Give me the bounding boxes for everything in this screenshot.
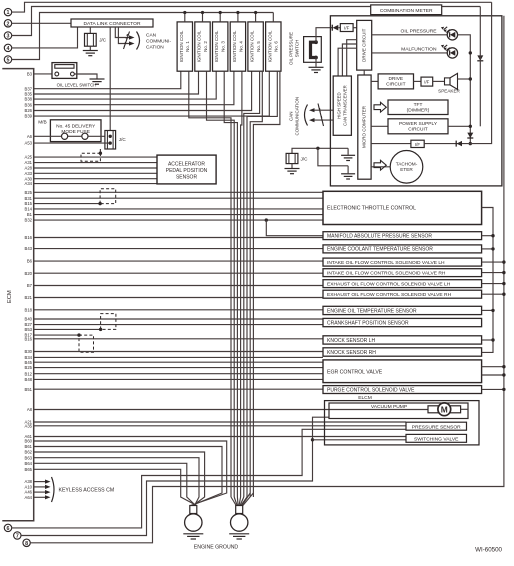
connector circle 3 [4, 32, 11, 39]
wire ECM B17 shield drain [34, 334, 79, 336]
svg-text:B25: B25 [25, 365, 33, 370]
micro computer box [358, 75, 371, 179]
shield (crankshaft sensor wires) [101, 314, 116, 330]
svg-text:SENSOR: SENSOR [176, 174, 198, 180]
arrowhead CAN low (meter) [309, 118, 315, 122]
connector circle 4 [4, 44, 11, 51]
wire oil pressure lamp [372, 34, 448, 36]
wire J/C to ground [89, 46, 91, 50]
arrowhead CAN high (meter) [309, 108, 315, 112]
svg-text:B61: B61 [25, 444, 33, 449]
svg-text:MALFUNCTION: MALFUNCTION [401, 47, 437, 53]
CAN bus arc (meter) [305, 105, 308, 126]
svg-text:6: 6 [7, 526, 10, 532]
wire ECM B12 [34, 373, 323, 375]
arrowhead A46 [45, 490, 51, 494]
svg-text:OIL LEVEL SWITCH: OIL LEVEL SWITCH [57, 82, 97, 87]
wire ECM A64 to keyless access CM [34, 496, 46, 498]
ignition coil No.4 [230, 22, 245, 71]
svg-text:(DIMMER): (DIMMER) [407, 108, 430, 114]
engine ground 1 body [185, 514, 202, 531]
wire ECM B40 [34, 318, 323, 320]
oil pressure switch box [304, 37, 322, 63]
junction dot switching valve branch [311, 438, 314, 441]
intake oil flow control solenoid valve LH box [323, 258, 482, 266]
svg-text:7: 7 [16, 534, 19, 540]
svg-text:I/F: I/F [424, 80, 429, 85]
svg-text:B43: B43 [25, 246, 33, 251]
wire I/F to drive circuit [353, 27, 357, 29]
svg-text:B45: B45 [25, 360, 33, 365]
wire ECM A33 to accelerator sensor [34, 172, 157, 174]
wire ECM A38 to keyless access CM [34, 481, 46, 483]
svg-text:A38: A38 [25, 479, 33, 484]
wire transceiver to drive circuit 2 [342, 44, 356, 76]
wire circle 6 to pressure sensor [12, 429, 406, 528]
arrowhead A10 [45, 485, 51, 489]
wire coil bundle 1 into engine ground 2 [231, 497, 236, 506]
ignition coil No.1 [177, 22, 192, 71]
junction dot sensor rail coolant sensor [491, 247, 494, 250]
svg-text:A53: A53 [25, 141, 33, 146]
junction dot coil No.5 supply [254, 11, 257, 14]
svg-text:B53: B53 [25, 327, 33, 332]
junction dot J/C A53 [109, 141, 112, 144]
ground (engine ground 2) [229, 533, 249, 535]
svg-text:SPEAKER: SPEAKER [438, 89, 460, 94]
wire coil 6 shield ground [253, 71, 280, 497]
wire ECM A34 to accelerator sensor [34, 183, 157, 185]
svg-text:No. 5: No. 5 [256, 41, 261, 52]
wire drive circuit to micro computer [363, 70, 365, 75]
wire transceiver to drive circuit 1 [347, 40, 357, 76]
svg-text:EXHAUST OIL FLOW CONTROL SOLEN: EXHAUST OIL FLOW CONTROL SOLENOID VALVE … [327, 281, 451, 287]
sensor rail [482, 208, 493, 353]
svg-text:ETER: ETER [400, 167, 413, 172]
svg-text:No. 3: No. 3 [221, 41, 226, 52]
No. 45 delivery mode fuse box [50, 120, 101, 142]
wire oil pressure switch to meter [316, 28, 332, 43]
svg-text:A33: A33 [25, 171, 33, 176]
stub exhaust LH to valve rail [482, 283, 504, 285]
junction dot valve rail EGR 2 [502, 373, 505, 376]
wire ECM B18 [34, 309, 323, 311]
wire ECM B64 to engine ground 1 [34, 463, 196, 505]
ECM label [7, 290, 13, 303]
ignition coil No.2 [195, 22, 210, 71]
svg-text:PURGE CONTROL SOLENOID VALVE: PURGE CONTROL SOLENOID VALVE [327, 387, 415, 393]
wire coil bundle 7 into engine ground 2 [242, 493, 250, 506]
wire circle 7 to vacuum pump [21, 417, 329, 535]
wire ECM B35 to ignition coil No.2 [34, 71, 199, 94]
ignition coil No.3 supply stub [219, 13, 221, 22]
tachometer [390, 151, 423, 184]
shield (accelerator sensor wire) [81, 153, 100, 161]
wire ECM B14 to electronic throttle control [34, 208, 323, 210]
svg-text:TACHOM-: TACHOM- [396, 161, 418, 166]
svg-text:OIL PRESSURE: OIL PRESSURE [401, 29, 438, 35]
vacuum pump motor terminal left [428, 406, 438, 413]
wire ECM B53 shield drain [34, 328, 101, 330]
wire I/F to speaker [433, 80, 445, 82]
svg-text:3: 3 [7, 34, 10, 40]
wire coil 2 ground [207, 71, 235, 497]
oil level switch box [52, 63, 77, 79]
switching valve box [406, 434, 467, 442]
valve rail stub purge [482, 388, 504, 390]
svg-text:I/F: I/F [415, 142, 420, 147]
svg-text:A6: A6 [27, 134, 33, 139]
svg-text:ELECTRONIC THROTTLE CONTROL: ELECTRONIC THROTTLE CONTROL [327, 206, 416, 212]
drive circuit box (lamps) [357, 20, 372, 70]
junction dot LED2 rail [469, 51, 472, 54]
wire ECM B27 [34, 324, 323, 326]
combination meter box [330, 16, 502, 186]
wire ECM B62 to engine ground 1 [34, 452, 205, 506]
CAN communication label (meter) [288, 97, 299, 136]
svg-text:SWITCH: SWITCH [295, 40, 300, 58]
svg-text:B30: B30 [25, 349, 33, 354]
wire malfunction lamp [372, 52, 448, 54]
wire coil 4 ground [241, 71, 242, 497]
svg-text:IGNITION COIL: IGNITION COIL [214, 30, 219, 62]
junction dot valve rail exhaust RH [502, 293, 505, 296]
wire ECM B61 to engine ground 1 [34, 447, 222, 506]
svg-text:M: M [441, 404, 448, 414]
wire ECM B63 to engine ground 1 [34, 458, 199, 506]
wire ECM B7 [34, 285, 323, 287]
svg-text:4: 4 [7, 46, 10, 52]
svg-text:COMMUNICATION: COMMUNICATION [294, 97, 299, 136]
svg-text:EGR CONTROL VALVE: EGR CONTROL VALVE [327, 369, 383, 375]
wire micro computer to I/F 3 [371, 143, 411, 145]
wire ECM B32 to electronic throttle control [34, 219, 323, 221]
interface I/F box 2 [421, 77, 433, 86]
speaker symbol [445, 78, 451, 85]
LED malfunction [447, 48, 457, 58]
svg-text:POWER SUPPLY: POWER SUPPLY [399, 121, 438, 127]
svg-text:PRESSURE SENSOR: PRESSURE SENSOR [412, 424, 461, 430]
svg-text:ENGINE GROUND: ENGINE GROUND [194, 545, 239, 551]
wire from circle 4 to data link connector [12, 27, 78, 48]
svg-text:IGNITION COIL: IGNITION COIL [179, 30, 184, 62]
interface I/F box 3 [411, 140, 424, 147]
svg-text:IGNITION COIL: IGNITION COIL [267, 30, 272, 62]
connector circle 8 [23, 539, 30, 546]
drive circuit box (speaker) [378, 74, 413, 89]
wire ECM A31 to accelerator sensor [34, 162, 157, 164]
svg-text:B12: B12 [25, 371, 33, 376]
interface I/F box 1 [340, 24, 353, 32]
arrowhead A38 [45, 480, 51, 484]
svg-text:B38: B38 [25, 97, 33, 102]
micro computer label [362, 105, 367, 148]
diode (meter input) [331, 25, 333, 31]
svg-text:B60: B60 [25, 439, 33, 444]
wire from circle 3 to meter rail [12, 7, 481, 36]
wire ECM B65 to engine ground 1 [34, 469, 197, 505]
wire coil bundle 8 into engine ground 2 [243, 493, 254, 506]
ignition coil No.5 supply stub [255, 13, 257, 22]
junction dot shield drain B15 [98, 202, 101, 205]
fuse terminal right [82, 133, 88, 139]
knock sensor RH box [323, 348, 482, 356]
arrowhead A64 [45, 495, 51, 499]
CAN bus arc (data link) [137, 32, 140, 50]
svg-text:B26: B26 [25, 108, 33, 113]
junction dot shield drain B53 [99, 328, 102, 331]
shield (knock sensor wires) [79, 335, 94, 352]
junction dot rail bottom [469, 142, 472, 145]
exhaust oil flow control solenoid valve LH box [323, 280, 482, 288]
vacuum pump motor [438, 403, 451, 416]
svg-text:KEYLESS ACCESS CM: KEYLESS ACCESS CM [59, 487, 115, 493]
CAN twisted-pair slash (meter) [318, 104, 324, 127]
svg-text:PEDAL POSITION: PEDAL POSITION [166, 168, 208, 174]
TFT arrow [374, 102, 386, 112]
wire from circle 2 to data link connector [12, 22, 71, 24]
junction dot coil No.3 supply [219, 11, 222, 14]
crankshaft position sensor box [323, 318, 482, 326]
ignition coil No.6 supply stub [272, 13, 274, 22]
svg-text:IGNITION COIL: IGNITION COIL [196, 30, 201, 62]
drive circuit label (lamps) [361, 28, 366, 62]
stub EGR 2 to valve rail [482, 374, 504, 376]
svg-text:B18: B18 [25, 307, 33, 312]
wire ECM B21 [34, 297, 323, 299]
wire micro computer to drive circuit 2 [371, 80, 378, 82]
svg-text:B6: B6 [27, 259, 33, 264]
junction dot valve rail intake RH [502, 271, 505, 274]
svg-text:B20: B20 [25, 271, 33, 276]
junction dot valve rail EGR 1 [502, 365, 505, 368]
diode (meter feed rail) [477, 55, 483, 60]
svg-text:2: 2 [7, 21, 10, 27]
svg-text:INTAKE OIL FLOW CONTROL SOLENO: INTAKE OIL FLOW CONTROL SOLENOID VALVE L… [327, 260, 445, 266]
combination meter label box [371, 5, 442, 15]
svg-text:ENGINE COOLANT TEMPERATURE SEN: ENGINE COOLANT TEMPERATURE SENSOR [327, 247, 433, 253]
wire ECM A8 [34, 409, 428, 411]
svg-text:A25: A25 [25, 155, 33, 160]
wire drive circuit to I/F 2 [414, 80, 422, 82]
connector circle 2 [4, 20, 11, 27]
svg-text:B25: B25 [25, 190, 33, 195]
ignition coil No.6 [266, 22, 281, 71]
wire ECM A21 [34, 421, 406, 423]
engine coolant temperature sensor box [323, 245, 482, 253]
svg-text:MICRO COMPUTER: MICRO COMPUTER [362, 105, 367, 148]
wire ECM B15 shield drain [34, 203, 100, 205]
power supply circuit box [388, 119, 448, 134]
wire ECM B37 to ignition coil No.1 [34, 71, 181, 89]
CAN twisted-pair slash (data link) [124, 32, 130, 50]
ignition coil No.2 supply stub [202, 13, 204, 22]
svg-text:B64: B64 [25, 461, 33, 466]
wire ECM B1 to electronic throttle control [34, 214, 323, 216]
wire vacuum pump motor stub [461, 408, 468, 410]
svg-text:J/C: J/C [99, 37, 107, 42]
wire ECM A46 to keyless access CM [34, 491, 46, 493]
svg-text:No. 6: No. 6 [274, 41, 279, 52]
junction connector J/C (data link) [85, 33, 97, 46]
svg-text:J/C: J/C [301, 157, 309, 162]
svg-text:B65: B65 [25, 467, 33, 472]
arrowhead CAN low [129, 41, 135, 45]
wire transceiver to drive circuit 3 [338, 48, 357, 76]
stub exhaust RH to valve rail [482, 293, 504, 295]
ELCM box [325, 401, 480, 445]
junction dot sensor rail knock LH [491, 338, 494, 341]
high speed CAN transceiver label [336, 85, 347, 126]
junction dot shield drain A25 [99, 152, 102, 155]
EGR control valve box [323, 360, 482, 383]
svg-text:IGNITION COIL: IGNITION COIL [250, 30, 255, 62]
wire ECM B31 to electronic throttle control [34, 197, 323, 199]
oil level switch terminal right [71, 72, 75, 76]
wire ECM A35 [34, 425, 406, 427]
svg-text:CRANKSHAFT POSITION SENSOR: CRANKSHAFT POSITION SENSOR [327, 320, 409, 326]
svg-text:COMMUNI-: COMMUNI- [146, 39, 171, 45]
stub intake LH to valve rail [482, 261, 504, 263]
wire ECM B16 [34, 338, 323, 340]
ground (meter CAN 1) [347, 148, 349, 155]
ground (meter CAN 2) [347, 166, 349, 174]
connector circle 1 [4, 8, 11, 15]
fuse terminal left [62, 133, 68, 139]
wire micro computer to tachometer [371, 166, 390, 168]
ignition coil No.4 supply stub [237, 13, 239, 22]
wire ECM B45 [34, 361, 323, 363]
svg-text:VACUUM PUMP: VACUUM PUMP [371, 404, 407, 410]
svg-text:M/B: M/B [38, 120, 47, 126]
svg-text:SWITCHING VALVE: SWITCHING VALVE [414, 437, 459, 443]
engine ground 1 terminal [190, 506, 197, 514]
svg-text:No. 4: No. 4 [238, 41, 243, 52]
wire fuse to J/C [88, 135, 110, 137]
wire CAN high to meter [313, 109, 333, 111]
ignition coil No.3 [213, 22, 228, 71]
wire ECM A10 to keyless access CM [34, 486, 46, 488]
svg-text:B15: B15 [25, 201, 33, 206]
ignition coil No.1 supply stub [184, 13, 186, 22]
svg-text:B21: B21 [25, 295, 33, 300]
accelerator pedal position sensor box [157, 155, 216, 184]
svg-text:ACCELERATOR: ACCELERATOR [168, 161, 205, 167]
wire J/C shield drain [99, 149, 101, 153]
svg-text:INTAKE OIL FLOW CONTROL SOLENO: INTAKE OIL FLOW CONTROL SOLENOID VALVE R… [327, 270, 446, 276]
junction dot coil No.4 supply [236, 11, 239, 14]
svg-text:5: 5 [7, 58, 10, 64]
wire ECM B48 [34, 378, 323, 380]
flash symbol malfunction [444, 45, 450, 51]
wire ECM A53 to J/C [34, 142, 111, 144]
svg-text:CAN: CAN [288, 111, 293, 121]
wire ECM B60 to engine ground 1 [34, 441, 227, 506]
wire ECM B39 to ignition coil No.6 [34, 71, 270, 116]
svg-text:J/C: J/C [119, 137, 127, 142]
high speed CAN transceiver box [333, 76, 351, 135]
junction connector J/C (CAN) [286, 153, 298, 163]
junction dot sensor rail manifold sensor [491, 234, 494, 237]
connector circle 5 [4, 56, 11, 63]
wire oil level switch to ground [74, 74, 97, 79]
TFT dimmer box [388, 100, 448, 115]
wire CAN branch to meter 2 [318, 148, 348, 166]
wire coil 3 ground [224, 71, 237, 497]
ground (oil pressure switch) [309, 66, 324, 68]
svg-text:CAN TRANSCEIVER: CAN TRANSCEIVER [342, 85, 347, 126]
LED oil pressure [447, 30, 457, 40]
engine ground 2 terminal [236, 506, 243, 514]
ECM control module outline [2, 69, 33, 521]
diode (meter rail) [467, 133, 473, 138]
svg-text:No. 1: No. 1 [185, 41, 190, 52]
wire coil bundle 2 into engine ground 2 [234, 497, 237, 506]
wire speaker to rail [458, 78, 471, 80]
wire I/F3 to supply rail [424, 2, 491, 143]
svg-text:A35: A35 [25, 423, 33, 428]
stub manifold sensor to sensor rail [482, 235, 493, 237]
svg-text:KNOCK SENSOR RH: KNOCK SENSOR RH [327, 350, 376, 356]
svg-text:COMBINATION METER: COMBINATION METER [380, 8, 433, 14]
svg-text:CATION: CATION [146, 45, 164, 51]
junction dot speaker rail [469, 77, 472, 80]
junction dot coil No.2 supply [201, 11, 204, 14]
svg-text:TFT: TFT [414, 102, 423, 108]
ground (data link J/C) [83, 50, 98, 52]
stub coolant sensor to sensor rail [482, 248, 493, 250]
svg-text:B37: B37 [25, 86, 33, 91]
wire ECM B3 to oil level switch [34, 73, 55, 75]
svg-text:CAN: CAN [146, 33, 157, 39]
svg-text:B62: B62 [25, 450, 33, 455]
wire ECM A61 [34, 436, 406, 438]
svg-text:B1: B1 [27, 212, 33, 217]
svg-text:DATA LINK CONNECTOR: DATA LINK CONNECTOR [83, 21, 141, 27]
svg-text:No. 2: No. 2 [203, 41, 208, 52]
wire coil bundle 4 into engine ground 2 [239, 497, 241, 506]
svg-text:A8: A8 [27, 407, 33, 412]
wire ECM B25 [34, 367, 323, 369]
svg-text:No. 45 DELIVERY: No. 45 DELIVERY [56, 123, 96, 129]
svg-text:B63: B63 [25, 455, 33, 460]
wire ECM A28 to accelerator sensor [34, 167, 157, 169]
pressure sensor box [406, 422, 467, 430]
svg-text:MANIFOLD ABSOLUTE PRESSURE SEN: MANIFOLD ABSOLUTE PRESSURE SENSOR [327, 233, 432, 239]
svg-text:A28: A28 [25, 166, 33, 171]
tachometer arrow [374, 160, 386, 170]
svg-text:CIRCUIT: CIRCUIT [386, 82, 406, 88]
wire ECM B51 [34, 388, 323, 390]
svg-text:B16: B16 [25, 235, 33, 240]
svg-text:B39: B39 [25, 114, 33, 119]
wire J/C CAN to ground [291, 164, 293, 168]
wire ECM B25 to electronic throttle control [34, 191, 323, 193]
electronic throttle control box [323, 191, 482, 224]
wire CAN low to meter [313, 119, 333, 121]
ignition coil No.5 [248, 22, 263, 71]
svg-text:B48: B48 [25, 377, 33, 382]
vacuum pump box [329, 403, 468, 419]
svg-text:A34: A34 [25, 181, 33, 186]
stub oil temp sensor to sensor rail [482, 309, 493, 311]
wire B32 branch to manifold pressure sensor [266, 220, 323, 236]
ground (oil level switch) [90, 78, 105, 80]
keyless access brace [52, 477, 55, 502]
wire ECM B16 [34, 237, 323, 239]
svg-text:8: 8 [25, 541, 28, 547]
svg-text:DRIVE CIRCUIT: DRIVE CIRCUIT [361, 28, 366, 62]
